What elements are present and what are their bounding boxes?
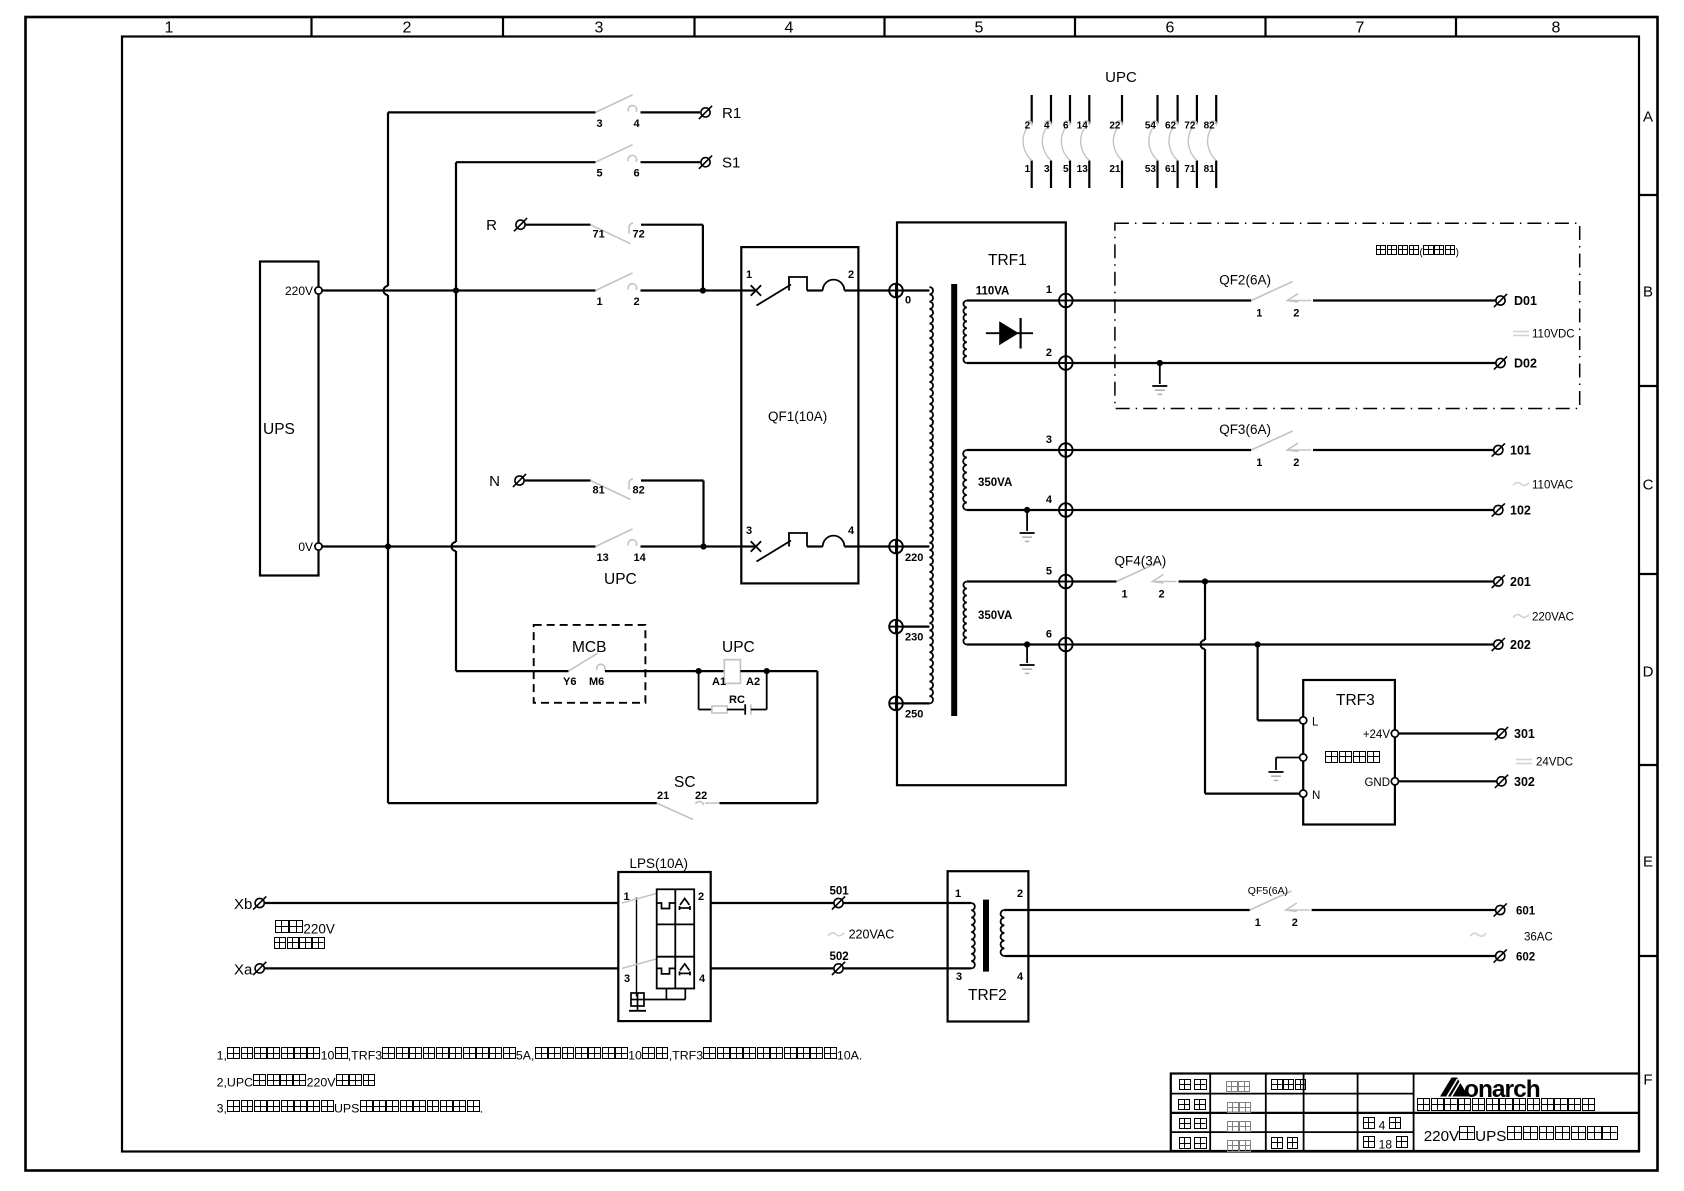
svg-text:UPC: UPC (722, 639, 755, 656)
Monarch logo (1440, 1078, 1469, 1097)
wire A2 to corner (740, 670, 817, 672)
svg-text:A: A (1643, 109, 1653, 126)
wire QF3 to 101 (1313, 449, 1494, 451)
svg-text:61: 61 (1165, 164, 1177, 175)
contactor UPC contact 71-72 (NC) (591, 225, 631, 244)
UPC aux contact 3-4 (1050, 95, 1052, 124)
wire TRF1-4 to 102 (1073, 509, 1494, 511)
svg-text:21: 21 (1109, 164, 1121, 175)
TRF1 pin 6 (1059, 638, 1073, 652)
UPC aux contact 61-62 (1176, 95, 1178, 124)
svg-text:4: 4 (848, 525, 855, 537)
wire N down to 0V junction (702, 481, 704, 547)
junction A2/RC (764, 668, 770, 674)
svg-text:3: 3 (597, 118, 603, 130)
svg-text:2: 2 (1293, 457, 1299, 469)
LPS breaker assembly (657, 889, 695, 988)
LPS magnetic element (680, 964, 689, 971)
transformer TRF2 box (948, 871, 1029, 1021)
svg-text:1: 1 (1256, 457, 1262, 469)
terminal 602 (1494, 949, 1507, 962)
wire +24V to 301 (1399, 732, 1497, 734)
svg-text:13: 13 (597, 552, 609, 564)
svg-text:Y6: Y6 (563, 676, 576, 688)
svg-text:6: 6 (634, 168, 640, 180)
TRF3 terminal +24V (1391, 730, 1398, 737)
110VDC label (1513, 331, 1529, 333)
wire QF1-2 to TRF1 tap 0 (858, 289, 889, 291)
junction 202/TRF3 feed (1255, 641, 1261, 647)
TRF1 pin 5 (1059, 575, 1073, 589)
svg-text:1: 1 (1122, 589, 1128, 601)
svg-text:601: 601 (1516, 906, 1536, 918)
svg-text:N: N (489, 473, 500, 490)
svg-text:24VDC: 24VDC (1536, 757, 1573, 769)
svg-text:502: 502 (830, 951, 849, 963)
svg-text:QF1(10A): QF1(10A) (768, 409, 827, 424)
220VAC label (1513, 615, 1529, 618)
TRF1 tap 0 (889, 284, 903, 298)
UPC aux contact 21-22 (1121, 95, 1123, 124)
svg-text:MCB: MCB (572, 639, 606, 656)
svg-text:TRF2: TRF2 (968, 987, 1007, 1004)
junction 201/TRF3 feed (1202, 578, 1208, 584)
hop of bus over 0V wire (452, 542, 457, 551)
svg-text:A2: A2 (746, 676, 760, 688)
svg-text:13: 13 (1077, 164, 1089, 175)
wire S-bus to MCB row (456, 670, 569, 672)
LPS interlock bar (636, 898, 638, 997)
wire Xb to LPS 1 (265, 902, 619, 904)
wire S1 row (456, 161, 596, 163)
switching power supply TRF3 box (1303, 680, 1395, 825)
title block table (1171, 1074, 1639, 1152)
svg-text:110VDC: 110VDC (1532, 329, 1575, 341)
svg-text:2: 2 (1293, 308, 1299, 320)
svg-text:1: 1 (1256, 308, 1262, 320)
svg-text:2: 2 (698, 891, 704, 903)
terminal D01 (1494, 294, 1507, 307)
junction N/0V (700, 543, 706, 549)
wire 201 junction down to TRF3 N (1204, 582, 1206, 641)
svg-text:6: 6 (1063, 121, 1069, 132)
svg-text:B: B (1643, 284, 1653, 301)
TRF1 pin 3 (1059, 443, 1073, 457)
wire Xa to LPS 3 (265, 967, 619, 969)
junction + earth on D02 wire (1157, 360, 1163, 366)
svg-text:SC: SC (674, 774, 696, 791)
svg-text:UPS: UPS (263, 421, 295, 438)
svg-text:1: 1 (746, 269, 752, 281)
svg-text:2: 2 (1017, 888, 1023, 900)
svg-text:2: 2 (1159, 589, 1165, 601)
svg-text:D02: D02 (1514, 357, 1537, 371)
circuit breaker QF2(6A) (1251, 282, 1293, 301)
terminal 301 (1495, 727, 1508, 740)
svg-text:5: 5 (1063, 164, 1069, 175)
svg-text:D: D (1643, 664, 1654, 681)
svg-text:RC: RC (729, 694, 745, 706)
svg-text:2: 2 (848, 269, 854, 281)
svg-text:102: 102 (1510, 504, 1531, 518)
svg-text:4: 4 (785, 20, 794, 37)
svg-text:R: R (486, 217, 497, 234)
contactor UPC contact 1-2 on 220V wire (596, 273, 633, 291)
svg-text:22: 22 (695, 790, 707, 802)
svg-text:82: 82 (633, 485, 645, 497)
circuit breaker QF1 box (741, 247, 858, 583)
wire down to SC row (816, 671, 818, 803)
TRF3 terminal GND (1391, 778, 1398, 785)
UPC aux contact 5-6 (1069, 95, 1071, 124)
TRF1 pin 4 (1059, 503, 1073, 517)
circuit breaker QF3(6A) (1251, 431, 1293, 450)
wire TRF1-5 to QF4 (1073, 580, 1117, 582)
terminal D02 (1494, 356, 1507, 369)
terminal 502 (832, 962, 845, 975)
36AC label (1470, 933, 1486, 936)
terminal 102 (1492, 503, 1505, 516)
LPS magnetic element (680, 899, 689, 906)
contactor UPC contact 3-4 (R1) (596, 95, 633, 113)
TRF1 tap 230 (889, 620, 903, 634)
LPS earth connection (665, 989, 667, 1000)
UPC aux contact 53-54 (1156, 95, 1158, 124)
optional section dash-dot box (1115, 223, 1580, 408)
svg-text:0: 0 (905, 295, 911, 307)
circuit breaker QF4(3A) (1117, 563, 1159, 582)
svg-text:4: 4 (1017, 971, 1024, 983)
svg-text:350VA: 350VA (978, 477, 1012, 489)
svg-text:1: 1 (955, 888, 961, 900)
TRF1 tap 250 (889, 697, 903, 711)
svg-text:UPC: UPC (604, 571, 637, 588)
svg-text:501: 501 (830, 886, 850, 898)
LPS thermal element (657, 903, 676, 909)
TRF3 terminal L (1300, 717, 1307, 724)
svg-text:3: 3 (956, 971, 962, 983)
wire R down to 220V junction (702, 225, 704, 291)
svg-text:21: 21 (657, 790, 669, 802)
24VDC label (1516, 759, 1532, 761)
svg-text:72: 72 (633, 229, 645, 241)
TRF1 core (951, 284, 957, 716)
svg-text:8: 8 (1552, 20, 1561, 37)
svg-text:UPC: UPC (1105, 69, 1137, 86)
terminal 501 (832, 896, 845, 909)
svg-text:1: 1 (165, 20, 174, 37)
UPS terminal 0V (315, 543, 322, 550)
svg-text:71: 71 (1184, 164, 1196, 175)
svg-text:1: 1 (1025, 164, 1031, 175)
110VAC label (1513, 483, 1529, 486)
UPC aux contact 81-82 (1215, 95, 1217, 124)
transformer TRF1 box (897, 222, 1066, 785)
svg-text:3: 3 (1044, 164, 1050, 175)
svg-text:220: 220 (905, 552, 923, 564)
svg-text:3: 3 (746, 525, 752, 537)
wire TRF2 2 to QF5 (1028, 909, 1249, 911)
svg-text:36AC: 36AC (1524, 932, 1553, 944)
svg-text:R1: R1 (722, 105, 741, 122)
TRF2 secondary winding (1001, 910, 1005, 956)
svg-text:71: 71 (593, 229, 605, 241)
wire TRF1-1 to QF2 (1073, 299, 1252, 301)
wire TRF2 4 to 602 (1028, 955, 1495, 957)
svg-text:E: E (1643, 854, 1653, 871)
TRF1 tap 220 (889, 540, 903, 554)
terminal S1 (699, 156, 712, 169)
svg-text:110VAC: 110VAC (1532, 480, 1573, 492)
svg-text:2: 2 (1046, 347, 1052, 359)
svg-text:Xa: Xa (234, 961, 253, 978)
wire R1 row (388, 111, 596, 113)
vertical bus to S1 switch (x=456) (455, 162, 457, 542)
wire 220V from UPS to QF1 (322, 289, 595, 291)
TRF1 pin 1 (1059, 294, 1073, 308)
svg-text:N: N (1312, 790, 1320, 802)
TRF3 terminal earth (1300, 754, 1307, 761)
svg-text:6: 6 (1166, 20, 1175, 37)
svg-text:TRF1: TRF1 (988, 252, 1027, 269)
svg-text:5: 5 (975, 20, 984, 37)
contactor UPC contact 5-6 (S1) (596, 145, 633, 163)
terminal 201 (1492, 575, 1505, 588)
svg-text:3: 3 (624, 973, 630, 985)
svg-text:81: 81 (593, 485, 605, 497)
svg-text:5: 5 (597, 168, 603, 180)
junction + earth on 350VA lower (1024, 641, 1030, 647)
svg-text:L: L (1312, 717, 1319, 729)
svg-text:2: 2 (634, 296, 640, 308)
UPS box (260, 262, 319, 576)
svg-text:0V: 0V (298, 540, 313, 554)
svg-text:54: 54 (1145, 121, 1157, 132)
svg-text:3: 3 (595, 20, 604, 37)
svg-text:101: 101 (1510, 444, 1531, 458)
svg-text:2: 2 (1292, 917, 1298, 929)
svg-text:220VAC: 220VAC (1532, 612, 1574, 624)
svg-text:QF5(6A): QF5(6A) (1248, 885, 1288, 897)
svg-text:2: 2 (403, 20, 412, 37)
wire GND to 302 (1399, 780, 1497, 782)
svg-text:230: 230 (905, 632, 923, 644)
terminal 101 (1492, 443, 1505, 456)
junction bus/0V wire (385, 543, 391, 549)
svg-text:5: 5 (1046, 566, 1052, 578)
wire QF4 to 201 (1179, 580, 1494, 582)
svg-text:4: 4 (634, 118, 641, 130)
svg-text:220V: 220V (285, 284, 313, 298)
wire LPS 4 to TRF2 3 (502) (711, 967, 834, 969)
svg-text:4: 4 (699, 973, 706, 985)
svg-text:1: 1 (1255, 917, 1261, 929)
right reference band ticks (1639, 194, 1658, 196)
svg-text:GND: GND (1364, 777, 1390, 789)
wire TRF1-6 to 202 (1073, 643, 1494, 645)
vertical bus to R1 switch (x=388) (387, 112, 389, 286)
TRF1 pin 2 (1059, 356, 1073, 370)
svg-text:1: 1 (597, 296, 603, 308)
LPS thermal element (657, 968, 676, 974)
circuit breaker QF5(6A) (1250, 891, 1292, 910)
wire LPS 2 to TRF2 1 (501) (711, 902, 834, 904)
svg-text:110VA: 110VA (976, 286, 1010, 298)
wire TRF1-3 to QF3 (1073, 449, 1252, 451)
junction A1/RC (696, 668, 702, 674)
svg-text:TRF3: TRF3 (1336, 692, 1375, 709)
UPS terminal 220V (315, 287, 322, 294)
wire R-bus to SC contact (388, 802, 657, 804)
220VAC label (bottom) (828, 933, 844, 936)
MCB contact Y6-M6 (569, 653, 599, 671)
wire N row through UPC 81-82 (525, 479, 591, 481)
wire QF2 to D01 (1313, 299, 1496, 301)
UPC aux contact 13-14 (1088, 95, 1090, 124)
UPC aux contact 71-72 (1196, 95, 1198, 124)
wire 0V from UPS to QF1 (322, 545, 595, 547)
svg-text:220VAC: 220VAC (849, 928, 895, 942)
svg-text:4: 4 (1044, 121, 1050, 132)
svg-text:201: 201 (1510, 575, 1531, 589)
terminal 302 (1495, 775, 1508, 788)
MCB dashed box (534, 625, 646, 703)
top reference band ticks (310, 17, 312, 37)
wire SC to A2 corner (720, 802, 818, 804)
svg-text:Xb: Xb (234, 896, 252, 913)
svg-text:QF4(3A): QF4(3A) (1115, 554, 1167, 569)
svg-text:S1: S1 (722, 155, 740, 172)
svg-text:301: 301 (1514, 727, 1535, 741)
QF1 pole 3-4 (741, 545, 756, 547)
UPC aux contact 1-2 (1031, 95, 1033, 124)
contactor UPC contact 81-82 (NC) (591, 481, 631, 500)
terminal R1 (699, 106, 712, 119)
QF1 pole 1-2 (741, 289, 756, 291)
junction + earth on 350VA upper (1024, 507, 1030, 513)
svg-text:72: 72 (1184, 121, 1196, 132)
svg-text:82: 82 (1204, 121, 1216, 132)
junction R/220V (700, 287, 706, 293)
svg-text:14: 14 (1077, 121, 1089, 132)
svg-text:22: 22 (1109, 121, 1121, 132)
svg-text:350VA: 350VA (978, 610, 1012, 622)
terminal 601 (1494, 903, 1507, 916)
svg-text:602: 602 (1516, 952, 1535, 964)
svg-text:250: 250 (905, 709, 923, 721)
terminal 202 (1492, 638, 1505, 651)
wire 202 junction down to TRF3 L (1256, 645, 1258, 721)
contactor UPC contact 13-14 on 0V wire (596, 529, 633, 547)
svg-text:3: 3 (1046, 434, 1052, 446)
svg-text:LPS(10A): LPS(10A) (630, 856, 689, 871)
LPS blades (622, 894, 656, 904)
wire R row through UPC 71-72 (526, 224, 591, 226)
svg-text:202: 202 (1510, 638, 1531, 652)
svg-text:62: 62 (1165, 121, 1177, 132)
svg-text:D01: D01 (1514, 294, 1537, 308)
svg-text:+24V: +24V (1363, 729, 1391, 741)
svg-text:81: 81 (1204, 164, 1216, 175)
svg-text:1: 1 (1046, 284, 1052, 296)
svg-text:302: 302 (1514, 775, 1535, 789)
svg-text:A1: A1 (712, 676, 726, 688)
svg-text:QF3(6A): QF3(6A) (1219, 422, 1271, 437)
svg-text:6: 6 (1046, 629, 1052, 641)
diode rectifier inside 110VA loop (986, 332, 1033, 334)
wire QF1-4 to TRF1 tap 220 (858, 545, 889, 547)
wire QF5 to 601 (1312, 909, 1496, 911)
TRF2 primary winding (948, 902, 972, 904)
svg-text:53: 53 (1145, 164, 1157, 175)
junction bus/220V wire (453, 287, 459, 293)
TRF3 terminal N (1300, 790, 1307, 797)
TRF1 primary winding (929, 287, 933, 703)
svg-text:M6: M6 (589, 676, 604, 688)
svg-text:2: 2 (1025, 121, 1031, 132)
wire TRF1-2 to D02 (1073, 362, 1496, 364)
svg-text:QF2(6A): QF2(6A) (1219, 273, 1271, 288)
svg-text:C: C (1643, 477, 1654, 494)
hop of bus over 220V wire (384, 286, 389, 295)
svg-text:F: F (1643, 1072, 1652, 1089)
wire M6 to UPC coil A1 (605, 670, 724, 672)
TRF2 core (983, 900, 989, 972)
svg-text:4: 4 (1046, 494, 1053, 506)
svg-text:7: 7 (1356, 20, 1365, 37)
svg-text:14: 14 (634, 552, 647, 564)
